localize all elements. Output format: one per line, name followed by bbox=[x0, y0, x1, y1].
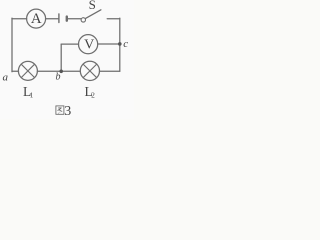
wire ammeter to switch terminal bbox=[46, 18, 59, 20]
svg-text:a: a bbox=[3, 72, 9, 84]
svg-text:A: A bbox=[31, 11, 42, 27]
svg-text:3: 3 bbox=[64, 104, 71, 119]
svg-text:c: c bbox=[123, 38, 128, 50]
svg-text:S: S bbox=[89, 0, 96, 12]
switch S pivot circle bbox=[81, 18, 85, 22]
wire right vertical bbox=[119, 18, 121, 71]
ammeter U1 circle bbox=[27, 9, 46, 28]
svg-text:b: b bbox=[56, 72, 61, 83]
wire voltmeter branch horizontal left bbox=[61, 43, 78, 45]
wire voltmeter to node c bbox=[98, 43, 119, 45]
wire L2 to bottom-right corner bbox=[100, 70, 120, 72]
switch left terminal bar bbox=[58, 14, 60, 23]
wire top-left corner to ammeter bbox=[12, 18, 27, 20]
background paper bbox=[0, 0, 134, 119]
wire contact to pivot bbox=[68, 18, 81, 20]
wire left vertical bbox=[11, 18, 13, 72]
node b junction dot bbox=[59, 70, 63, 74]
figure caption 图 glyph (drawn) bbox=[56, 106, 64, 114]
voltmeter U2 circle bbox=[79, 35, 98, 54]
wire switch to top-right corner bbox=[107, 18, 120, 20]
switch blade (open) bbox=[85, 10, 101, 19]
lamp L2 bbox=[80, 61, 99, 80]
wire voltmeter branch vertical bbox=[60, 44, 62, 71]
lamp L1 bbox=[18, 61, 37, 80]
svg-text:V: V bbox=[84, 38, 94, 53]
switch contact stud bbox=[66, 17, 68, 21]
wire node a to lamp L1 bbox=[12, 70, 19, 72]
wire L1 to node b bbox=[37, 70, 80, 72]
node c junction dot bbox=[118, 42, 122, 46]
